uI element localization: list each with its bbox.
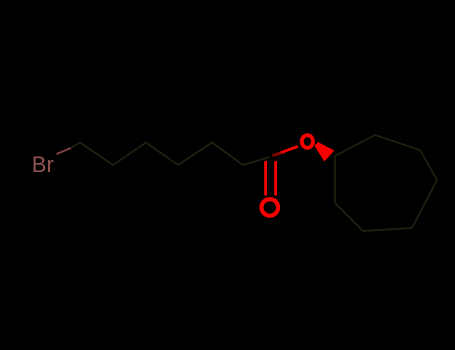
svg-text:Br: Br <box>32 152 54 177</box>
